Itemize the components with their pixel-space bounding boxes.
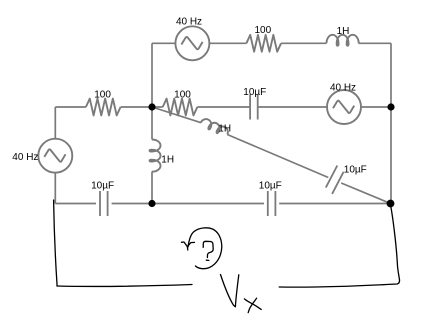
wire middle row left of left resistor — [55, 106, 86, 108]
wire hand-drawn bottom right segment — [279, 280, 399, 287]
wire right vertical — [390, 43, 392, 203]
wire hand-drawn right vertical — [391, 205, 400, 280]
wire bottom row left of capacitor — [55, 203, 96, 205]
svg-text:1H: 1H — [218, 123, 231, 134]
resistor R1 100 top — [246, 35, 281, 52]
wire bottom row between node and right cap — [152, 203, 264, 205]
capacitor C4 10uF diagonal — [326, 166, 344, 194]
wire top row middle segment — [209, 42, 246, 44]
loop arrow curl — [188, 228, 222, 269]
wire top-left vertical — [151, 43, 153, 107]
wire middle row between resistor and capacitor — [197, 106, 250, 108]
wire middle row between capacitor and right source — [258, 106, 327, 108]
capacitor C1 10uF middle row — [250, 95, 258, 120]
inductor L3 1H diagonal — [200, 117, 230, 137]
svg-text:1H: 1H — [161, 154, 174, 165]
wire diagonal from capacitor to bottom right node — [341, 183, 390, 204]
Vx letter x stroke 1 — [244, 299, 261, 310]
capacitor C2 10uF bottom left — [100, 191, 108, 216]
svg-text:40 Hz: 40 Hz — [176, 17, 202, 28]
wire top row left segment — [152, 42, 175, 44]
Vx letter x stroke 2 — [248, 298, 256, 312]
wire inductor branch vertical bottom lead — [151, 172, 153, 204]
wire middle row between left resistor and node — [121, 106, 152, 108]
ac source V3 left 40Hz — [38, 139, 72, 173]
wire bottom row between cap and node — [112, 203, 152, 205]
ac source V1 top 40Hz — [175, 26, 209, 60]
inductor L2 1H vertical branch — [150, 140, 161, 172]
capacitor C3 10uF bottom right — [268, 191, 276, 216]
wire diagonal from node to diagonal inductor — [152, 107, 201, 123]
question mark dot — [206, 259, 209, 261]
svg-text:1H: 1H — [337, 26, 350, 37]
wire top row right segment — [359, 42, 392, 44]
inductor L1 1H top — [327, 35, 359, 46]
svg-text:10µF: 10µF — [344, 165, 367, 176]
Vx letter V — [221, 275, 239, 307]
node B junction dot — [387, 103, 394, 110]
node C junction dot — [148, 200, 155, 207]
wire bottom row right of cap — [279, 203, 390, 205]
wire diagonal from inductor to diagonal capacitor — [227, 135, 328, 178]
resistor R2 100 left — [86, 99, 121, 116]
svg-text:10µF: 10µF — [91, 180, 114, 191]
wire hand-drawn left vertical — [54, 200, 57, 286]
wire left column above source — [54, 107, 56, 139]
question mark — [203, 241, 213, 257]
svg-text:100: 100 — [254, 25, 271, 36]
wire middle row right of source — [361, 106, 391, 108]
wire hand-drawn bottom left segment — [57, 285, 192, 287]
svg-text:40 Hz: 40 Hz — [330, 82, 356, 93]
wire inductor branch vertical top lead — [151, 107, 153, 140]
svg-text:10µF: 10µF — [243, 87, 266, 98]
svg-text:100: 100 — [94, 90, 111, 101]
wire middle row between node and mid resistor — [152, 106, 163, 108]
svg-text:100: 100 — [174, 89, 191, 100]
svg-text:40 Hz: 40 Hz — [12, 152, 38, 163]
wire left column below source — [54, 173, 56, 204]
svg-text:10µF: 10µF — [259, 180, 282, 191]
wire top row between resistor and inductor — [281, 42, 326, 44]
node D junction dot — [387, 200, 395, 208]
node A junction dot — [148, 103, 155, 110]
ac source V2 right 40Hz — [327, 90, 361, 124]
loop arrow head — [182, 242, 188, 250]
resistor R3 100 middle — [163, 99, 198, 116]
